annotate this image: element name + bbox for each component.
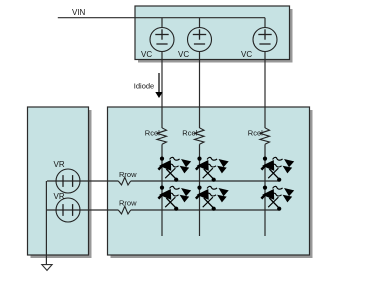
- wire row 1 right segment: [131, 180, 280, 182]
- wire stem VC3 top: [264, 18, 266, 28]
- LED matrix box: [108, 107, 310, 255]
- wire VIN horizontal: [58, 17, 265, 19]
- resistor Rrow1: [118, 177, 130, 185]
- LED D13 (row1,col3): [261, 157, 294, 182]
- voltage source VR1: [56, 169, 80, 193]
- resistor Rcol3: [260, 128, 270, 145]
- svg-text:Idiode: Idiode: [134, 81, 154, 90]
- wire row 1 left segment: [47, 180, 118, 182]
- shadow of LED matrix box: [111, 110, 313, 258]
- wire row 2 right segment: [131, 209, 280, 211]
- voltage source VC3: [253, 28, 277, 52]
- LED D11 (row1,col1): [158, 157, 191, 182]
- wire column 1 lower: [161, 144, 163, 236]
- wire column 1 (VC1 bottom to Rcol1): [161, 52, 163, 129]
- svg-text:VC: VC: [141, 50, 152, 59]
- svg-text:VIN: VIN: [72, 8, 86, 17]
- voltage source VC1: [150, 28, 174, 52]
- svg-text:Rrow: Rrow: [119, 170, 137, 179]
- LED D12 (row1,col2): [196, 157, 229, 182]
- svg-text:VR: VR: [54, 192, 65, 201]
- voltage source VC2: [188, 28, 212, 52]
- resistor Rcol2: [195, 128, 205, 145]
- svg-text:VC: VC: [241, 50, 252, 59]
- resistor Rcol1: [157, 128, 167, 145]
- LED D22 (row2,col2): [196, 186, 229, 211]
- left sources box (row drivers): [28, 107, 89, 255]
- wire stem VC1 top: [161, 18, 163, 28]
- resistor Rrow2: [118, 206, 130, 214]
- wire stem VC2 top: [199, 18, 201, 28]
- top sources box (column drivers): [135, 6, 290, 60]
- wire ground vertical: [45, 181, 47, 265]
- wire column 3 lower: [264, 144, 266, 236]
- shadow of left sources box: [31, 110, 92, 258]
- wire column 2 lower: [199, 144, 201, 236]
- LED D21 (row2,col1): [158, 186, 191, 211]
- LED D23 (row2,col3): [261, 186, 294, 211]
- voltage source VR2: [56, 198, 80, 222]
- ground: [42, 265, 52, 271]
- svg-text:Rcol: Rcol: [145, 128, 160, 137]
- svg-text:Rcol: Rcol: [248, 128, 263, 137]
- svg-text:VR: VR: [54, 160, 65, 169]
- svg-text:VC: VC: [178, 50, 189, 59]
- wire row 2 left segment: [47, 209, 118, 211]
- svg-text:Rcol: Rcol: [182, 128, 197, 137]
- svg-text:Rrow: Rrow: [119, 199, 137, 208]
- wire column 3 (VC3 bottom to Rcol3): [264, 52, 266, 129]
- current annotation arrow Idiode: [155, 73, 162, 98]
- wire column 2 (VC2 bottom to Rcol2): [199, 52, 201, 129]
- shadow of top sources box: [138, 9, 293, 63]
